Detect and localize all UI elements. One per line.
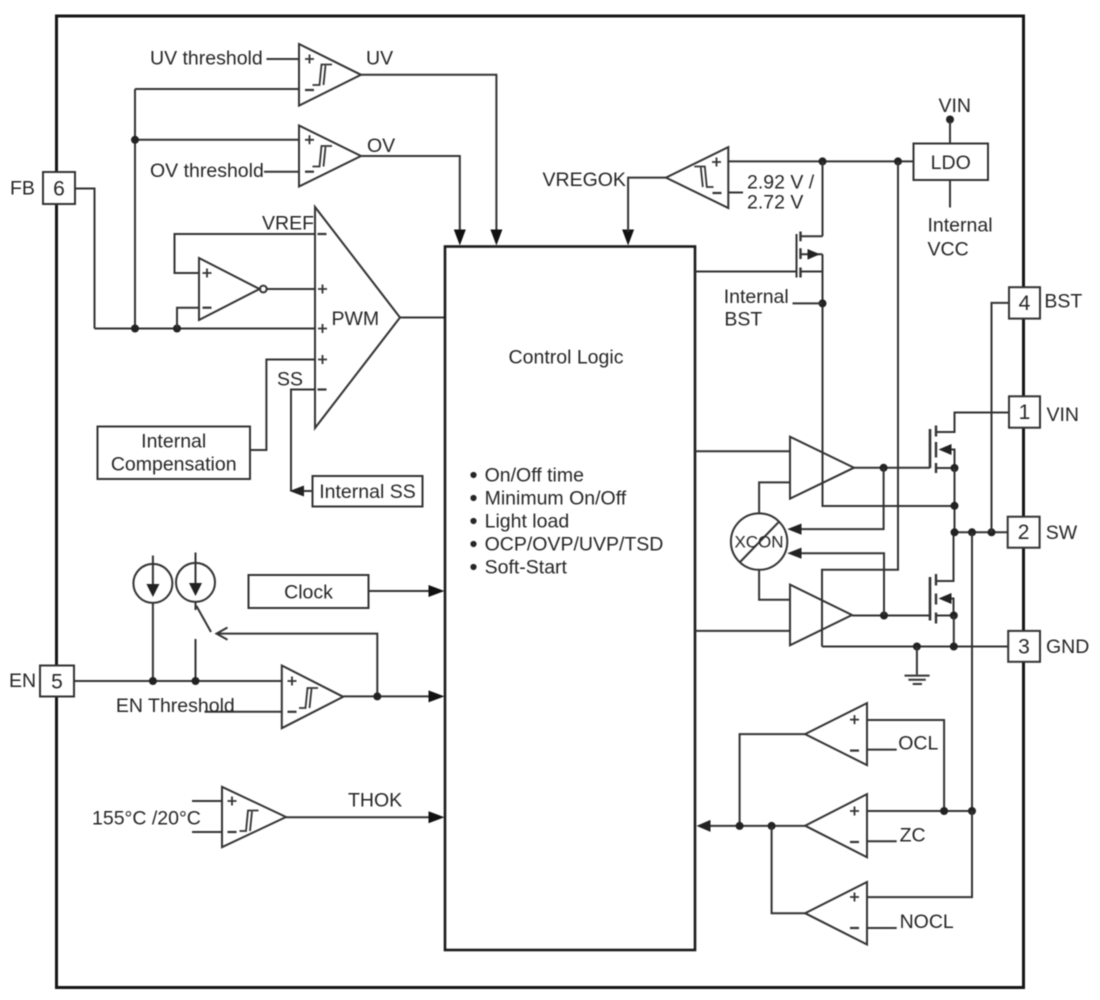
- svg-text:1: 1: [1019, 401, 1031, 424]
- node ZC sense junction: [968, 807, 976, 815]
- pin 6 FB box: [10, 172, 75, 204]
- wire VREF loop: [175, 234, 316, 273]
- svg-text:2.92 V /: 2.92 V /: [747, 172, 815, 194]
- svg-text:Soft-Start: Soft-Start: [485, 557, 568, 579]
- bullet Light load: [470, 518, 476, 524]
- wire Internal BST label stub: [793, 302, 823, 304]
- svg-text:THOK: THOK: [348, 790, 402, 812]
- arrow UV into control logic: [490, 230, 502, 246]
- svg-text:Internal: Internal: [141, 431, 206, 453]
- open arrow at switch: [217, 628, 228, 640]
- switch blade: [196, 606, 211, 632]
- svg-text:VCC: VCC: [928, 239, 969, 261]
- wire UV output to control logic: [361, 75, 496, 232]
- current source I1: [133, 556, 172, 682]
- wire OCL plus input: [867, 720, 944, 811]
- comparator EN (Schmitt): [282, 666, 430, 729]
- Internal Compensation box: [98, 427, 251, 480]
- comparator NOCL (left facing): [772, 811, 972, 945]
- wire OCL output: [740, 734, 806, 826]
- error amplifier (VREF buffer): [175, 234, 316, 329]
- wire UV threshold stub: [267, 58, 300, 60]
- node VIN terminal: [946, 116, 954, 124]
- svg-text:VIN: VIN: [1047, 404, 1080, 426]
- svg-text:3: 3: [1018, 636, 1030, 659]
- wire clock to control logic: [369, 590, 431, 592]
- svg-text:Clock: Clock: [284, 582, 333, 604]
- wire VIN to LDO: [949, 121, 951, 144]
- wire NOCL plus input: [867, 811, 972, 897]
- wire FB horizontal to PWM + input: [95, 328, 316, 330]
- svg-text:OV: OV: [367, 135, 395, 157]
- node low source junction: [950, 612, 958, 620]
- wire control logic to low driver input: [695, 630, 790, 632]
- bullet Minimum On/Off: [470, 495, 476, 501]
- wire EN net: [74, 680, 282, 682]
- svg-text:Minimum On/Off: Minimum On/Off: [485, 488, 627, 510]
- wire VREGOK plus input to LDO: [728, 160, 913, 162]
- wire XCON bottom to low driver: [759, 570, 790, 600]
- wire Internal SS to SS node: [303, 490, 313, 492]
- svg-text:Light load: Light load: [485, 511, 570, 533]
- node I1-EN junction: [149, 677, 157, 685]
- svg-text:SW: SW: [1046, 522, 1078, 544]
- wire XCON top to high driver: [759, 482, 790, 513]
- wire ZC sense rail: [971, 532, 973, 811]
- svg-text:4: 4: [1019, 292, 1031, 315]
- svg-text:6: 6: [53, 178, 65, 201]
- wire OCL minus stub: [867, 749, 897, 751]
- Control Logic box: [445, 247, 695, 951]
- node VCC rail junction: [894, 157, 902, 165]
- comparator ZC (left facing): [710, 794, 972, 857]
- svg-text:UV: UV: [366, 48, 393, 70]
- transistor low-side MOSFET: [930, 532, 954, 623]
- bullet OCP/OVP/UVP/TSD: [470, 541, 476, 547]
- wire VREGOK minus stub: [728, 192, 743, 194]
- node low gate drive junction: [880, 612, 888, 620]
- wire OV comparator plus input: [135, 139, 299, 141]
- wire control logic to high driver input: [695, 450, 790, 452]
- transistor high-side MOSFET: [930, 413, 1009, 474]
- svg-text:VIN: VIN: [939, 95, 972, 117]
- output bubble: [260, 286, 267, 293]
- wire BST rail through high driver: [823, 254, 955, 506]
- current source I2: [176, 553, 215, 611]
- svg-text:VREGOK: VREGOK: [543, 169, 626, 191]
- arrow into SS node: [290, 486, 305, 497]
- wire switch select feedback: [217, 634, 378, 697]
- node high gate drive junction: [880, 464, 888, 472]
- comparator PWM (main): [250, 207, 445, 491]
- node BST rail junction: [819, 157, 827, 165]
- comparator OCL (left facing): [740, 703, 945, 826]
- arrow XCON input 2: [787, 548, 801, 559]
- node OV branch junction: [131, 136, 139, 144]
- arrow clock into control logic: [429, 585, 445, 597]
- svg-text:SS: SS: [277, 369, 303, 391]
- svg-text:Control Logic: Control Logic: [509, 347, 624, 369]
- wire OV output to control logic: [361, 156, 460, 232]
- wire PWM output to control logic: [400, 317, 445, 319]
- wire BST pin rail: [992, 303, 1010, 532]
- wire GND rail: [822, 646, 1008, 648]
- svg-text:NOCL: NOCL: [900, 911, 954, 933]
- driver high-side: [695, 437, 930, 514]
- svg-text:Compensation: Compensation: [111, 454, 237, 476]
- wire ZC minus stub: [867, 840, 897, 842]
- arrow ZC into control logic: [697, 820, 711, 832]
- wire BST rail down to internal BST fet drain: [822, 161, 824, 236]
- Internal SS box: [290, 476, 423, 507]
- wire EN threshold reference: [205, 711, 282, 713]
- svg-text:VREF: VREF: [262, 213, 314, 235]
- wire XCON input 2 from low gate: [801, 553, 885, 615]
- wire VREGOK output to control logic: [628, 178, 666, 232]
- pin 3 GND box: [1008, 631, 1089, 662]
- wire I1 to EN net: [152, 603, 154, 681]
- wire high source to SW: [954, 468, 956, 532]
- node Internal BST tap: [819, 299, 827, 307]
- node OCL output junction: [736, 822, 744, 830]
- pin 5 EN box: [9, 666, 74, 697]
- svg-text:155°C /20°C: 155°C /20°C: [92, 808, 201, 830]
- wire ZC output to control logic: [710, 825, 805, 827]
- arrow THOK into control logic: [429, 811, 445, 823]
- node GND rail junctions: [913, 643, 921, 651]
- wire SS minus down: [291, 390, 315, 492]
- bullet On/Off time: [470, 472, 476, 478]
- wire thermal plus stub: [192, 800, 222, 802]
- wire LDO to internal VCC: [949, 180, 951, 208]
- node high source junction: [951, 464, 959, 472]
- svg-text:OCL: OCL: [898, 733, 938, 755]
- arrow EN into control logic: [429, 690, 445, 702]
- wire low driver output to gate: [852, 615, 930, 617]
- svg-text:FB: FB: [10, 178, 35, 200]
- node OCL sense junction: [940, 807, 948, 815]
- wire NOCL minus stub: [867, 927, 897, 929]
- wire SW node: [955, 531, 1009, 533]
- wire OV threshold stub: [264, 171, 299, 173]
- arrow XCON input 1: [787, 524, 801, 535]
- svg-text:BST: BST: [724, 309, 762, 331]
- node FB-UV junction: [131, 325, 139, 333]
- node BST-SW junction: [951, 502, 959, 510]
- svg-text:On/Off time: On/Off time: [485, 465, 584, 487]
- wire UV/OV sense vertical: [134, 89, 136, 329]
- wire control logic to internal BST gate: [695, 271, 797, 273]
- bullet Soft-Start: [470, 564, 476, 570]
- svg-text:OCP/OVP/UVP/TSD: OCP/OVP/UVP/TSD: [485, 534, 664, 556]
- LDO box: [914, 144, 989, 181]
- arrow OV into control logic: [454, 230, 466, 246]
- svg-text:5: 5: [51, 671, 63, 694]
- wire I2 to switch: [195, 602, 197, 610]
- wire FB pin to net: [75, 189, 95, 329]
- node I2-EN junction: [192, 677, 200, 685]
- svg-text:UV threshold: UV threshold: [150, 48, 263, 70]
- driver low-side: [695, 570, 930, 646]
- wire internal compensation to PWM +: [250, 360, 315, 451]
- svg-text:2: 2: [1018, 521, 1030, 544]
- svg-text:ZC: ZC: [900, 825, 926, 847]
- svg-text:OV threshold: OV threshold: [150, 160, 264, 182]
- svg-text:XCON: XCON: [734, 533, 783, 552]
- wire NOCL output: [772, 826, 806, 913]
- comparator VREGOK (Schmitt, left facing): [628, 147, 913, 232]
- node error-amp junction: [173, 325, 181, 333]
- wire THOK to control logic: [286, 816, 430, 818]
- svg-text:LDO: LDO: [931, 152, 971, 174]
- wire VCC rail to low driver: [822, 161, 898, 646]
- svg-text:BST: BST: [1044, 291, 1082, 313]
- node NOCL output junction: [768, 822, 776, 830]
- svg-text:Internal: Internal: [928, 215, 993, 237]
- comparator OV (Schmitt): [299, 126, 361, 187]
- Clock box: [249, 575, 445, 608]
- wire thermal minus stub: [192, 831, 222, 833]
- pin 1 VIN box: [1009, 396, 1079, 427]
- wire high driver output to gate: [854, 467, 930, 469]
- svg-text:EN: EN: [9, 670, 36, 692]
- pin 2 SW box: [1008, 517, 1078, 548]
- wire ZC plus input: [867, 810, 972, 812]
- node SW junctions: [951, 528, 959, 536]
- XCON block: [731, 513, 787, 569]
- ground symbol: [905, 647, 930, 685]
- wire error amp minus to FB: [177, 308, 199, 329]
- node EN feedback junction: [373, 692, 381, 700]
- wire error amp output to PWM: [267, 288, 315, 290]
- arrow VREGOK into control logic: [622, 230, 634, 246]
- wire switch to EN net: [195, 639, 197, 681]
- svg-text:Internal SS: Internal SS: [319, 481, 415, 503]
- svg-text:GND: GND: [1046, 636, 1089, 658]
- wire XCON input 1 from high gate: [801, 468, 884, 529]
- transistor internal BST switch: [797, 232, 823, 278]
- svg-text:2.72 V: 2.72 V: [747, 192, 803, 214]
- svg-text:PWM: PWM: [332, 308, 380, 330]
- wire low source to GND rail: [953, 616, 955, 647]
- pin 4 BST box: [1009, 287, 1082, 318]
- svg-text:EN Threshold: EN Threshold: [116, 695, 235, 717]
- wire UV comparator minus input: [135, 88, 299, 90]
- comparator thermal (Schmitt): [192, 787, 430, 847]
- wire EN comparator output: [343, 695, 430, 697]
- comparator UV (Schmitt): [299, 44, 361, 106]
- svg-text:Internal: Internal: [724, 286, 789, 308]
